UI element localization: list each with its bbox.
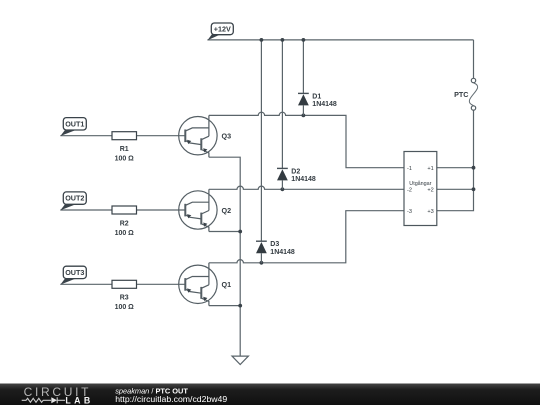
node Q1 collector / D3 anode	[260, 261, 264, 265]
node +12V rail / D2 branch	[281, 38, 285, 42]
svg-text:-2: -2	[407, 188, 412, 194]
svg-text:D3: D3	[270, 241, 279, 248]
wire vertical rail to D3 cathode	[260, 40, 262, 241]
resistor R1	[112, 132, 137, 163]
wire connector +2 to right column	[437, 188, 474, 190]
node +1 / PTC column	[472, 166, 476, 170]
svg-text:+3: +3	[427, 209, 433, 215]
footer logo zigzag and diode	[22, 397, 65, 403]
svg-text:1N4148: 1N4148	[312, 101, 337, 108]
wire connector +1 to right column	[437, 167, 474, 169]
svg-text:100 Ω: 100 Ω	[115, 304, 135, 311]
wire vertical rail to D1 cathode	[302, 40, 304, 94]
wire R2 to Q2 base	[137, 209, 186, 211]
PTC terminals	[454, 78, 478, 110]
diode D2	[277, 168, 316, 189]
svg-text:+12V: +12V	[214, 24, 231, 33]
svg-text:R1: R1	[120, 146, 129, 153]
svg-text:OUT3: OUT3	[65, 268, 84, 277]
node +12V rail / D1 branch	[302, 38, 306, 42]
svg-text:D1: D1	[312, 93, 321, 100]
svg-text:D2: D2	[291, 168, 300, 175]
net flag OUT1	[60, 118, 86, 136]
footer bar	[0, 384, 540, 405]
node Q3 collector / D1 anode	[302, 114, 306, 118]
svg-text:Q2: Q2	[222, 206, 232, 215]
wire Q2 emitter	[209, 231, 240, 233]
resistor R2	[112, 206, 137, 237]
wire R3 to Q1 base	[137, 283, 186, 285]
svg-text:OUT1: OUT1	[65, 119, 84, 128]
wire Q1 collector row with hop	[209, 211, 404, 263]
svg-text:Q3: Q3	[222, 132, 232, 141]
svg-text:R3: R3	[120, 295, 129, 302]
wire +12V rail drop to PTC	[473, 40, 475, 78]
ground	[232, 356, 248, 364]
svg-text:100 Ω: 100 Ω	[115, 230, 135, 237]
wire Q1 emitter	[209, 305, 240, 307]
node Q2 collector / D2 anode	[281, 187, 285, 191]
svg-text:1N4148: 1N4148	[291, 176, 316, 183]
wire Q3 collector row with hops	[209, 112, 404, 167]
node +12V rail / D3 branch	[260, 38, 264, 42]
svg-text:100 Ω: 100 Ω	[115, 156, 135, 163]
transistor Q2	[179, 189, 217, 231]
wire base OUT1 to R1	[60, 135, 112, 137]
wire connector +3 up right column	[437, 110, 474, 211]
svg-text:+1: +1	[427, 166, 433, 172]
svg-text:1N4148: 1N4148	[270, 249, 295, 256]
connector U1 Utgangar	[404, 152, 437, 226]
wire base OUT2 to R2	[60, 209, 112, 211]
svg-text:Utgångar: Utgångar	[409, 180, 431, 187]
transistor Q1	[179, 263, 217, 306]
wire base OUT3 to R3	[60, 283, 112, 285]
net flag OUT2	[60, 192, 86, 210]
wire Q2 collector row with hops	[209, 186, 404, 189]
wire +12V rail	[207, 39, 473, 41]
svg-text:Q1: Q1	[222, 280, 232, 289]
svg-text:OUT2: OUT2	[65, 194, 84, 203]
svg-text:-1: -1	[407, 166, 412, 172]
diode D3	[256, 241, 295, 263]
svg-text:PTC: PTC	[454, 90, 468, 99]
diode D1	[298, 93, 337, 115]
svg-text:-3: -3	[407, 209, 412, 215]
svg-text:LAB: LAB	[65, 395, 93, 405]
wire R1 to Q3 base	[137, 135, 186, 137]
svg-text:http://circuitlab.com/cd2bw49: http://circuitlab.com/cd2bw49	[115, 394, 227, 404]
resistor R3	[112, 280, 137, 311]
node Q2 emitter / ground rail	[238, 230, 242, 234]
svg-text:+2: +2	[427, 188, 433, 194]
node Q1 emitter / ground rail	[238, 304, 242, 308]
node +2 / PTC column	[472, 187, 476, 191]
svg-text:R2: R2	[120, 220, 129, 227]
transistor Q3	[179, 115, 217, 157]
wire Q3 emitter to chain	[209, 157, 240, 356]
net flag OUT3	[60, 266, 86, 284]
net flag +12V	[208, 23, 234, 40]
wire vertical rail to D2 cathode	[281, 40, 283, 169]
